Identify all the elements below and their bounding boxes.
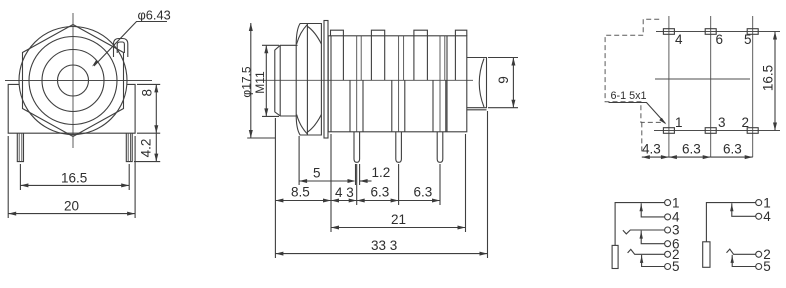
hex nut outline front bbox=[23, 25, 124, 137]
svg-text:6.3: 6.3 bbox=[723, 142, 742, 157]
side view pin 1 bbox=[354, 132, 360, 163]
front view right pin bbox=[126, 133, 132, 161]
svg-text:4: 4 bbox=[763, 209, 771, 224]
dim 16.5 (pin spacing) bbox=[20, 164, 129, 190]
wire terminal1 to sleeve (right) bbox=[706, 203, 755, 242]
pad 4 bbox=[663, 29, 674, 35]
dim 20 (body width) bbox=[8, 136, 135, 218]
terminal 1 circle right bbox=[756, 200, 762, 206]
body mould lines upper bbox=[343, 36, 455, 81]
terminal 6 circle bbox=[665, 241, 671, 247]
terminal 5 circle bbox=[665, 264, 671, 270]
label 6-1.5x1 with leader bbox=[609, 90, 667, 124]
dim 8.5 bbox=[275, 118, 331, 258]
svg-text:6-1 5x1: 6-1 5x1 bbox=[611, 90, 647, 102]
dim 21 bbox=[331, 134, 466, 232]
dim 9 (cap) bbox=[488, 58, 518, 108]
svg-text:20: 20 bbox=[64, 199, 79, 214]
sleeve rectangle S1 bbox=[612, 245, 618, 268]
svg-text:21: 21 bbox=[391, 212, 406, 227]
svg-text:6.3: 6.3 bbox=[371, 185, 390, 200]
tip spring contact 3 bbox=[623, 230, 665, 234]
terminal 4 circle bbox=[665, 214, 671, 220]
contact 4 break arrow bbox=[641, 203, 664, 217]
svg-text:5: 5 bbox=[313, 166, 321, 181]
dim 5 (nut face to pin1) bbox=[299, 136, 355, 185]
svg-text:4 3: 4 3 bbox=[335, 185, 354, 200]
pad 6 bbox=[705, 29, 716, 35]
body tabs on top bbox=[331, 30, 467, 36]
terminal 5 circle right bbox=[756, 264, 762, 270]
terminal 4 circle right bbox=[756, 213, 762, 219]
svg-text:8.5: 8.5 bbox=[291, 185, 310, 200]
dim 6.3 (pin2-pin3) bbox=[399, 164, 440, 205]
svg-text:φ17.5: φ17.5 bbox=[240, 66, 254, 97]
svg-text:6.3: 6.3 bbox=[682, 142, 701, 157]
side view pin 3 bbox=[437, 132, 443, 163]
contact 6 break arrow bbox=[641, 231, 664, 244]
svg-text:2: 2 bbox=[742, 115, 750, 130]
svg-text:1: 1 bbox=[672, 195, 680, 210]
dim 1.2 (pin width) bbox=[356, 164, 391, 185]
side view axis centerline bbox=[263, 79, 473, 81]
dim 6.3 (pin1-pin2) bbox=[357, 164, 399, 205]
footprint dashed body outline bbox=[605, 19, 664, 152]
dim 16.5 footprint bbox=[761, 32, 778, 131]
svg-text:4.3: 4.3 bbox=[642, 142, 661, 157]
dim 8 (body height) bbox=[137, 84, 160, 133]
pad 1 bbox=[663, 128, 674, 134]
contact 4 break arrow right bbox=[732, 203, 756, 216]
hex nut side view bbox=[296, 24, 321, 136]
threaded bushing M11 bbox=[275, 45, 298, 116]
svg-text:4.2: 4.2 bbox=[139, 139, 154, 158]
washer bbox=[324, 21, 328, 139]
svg-text:9: 9 bbox=[496, 76, 511, 84]
rear cap cylinder bbox=[467, 58, 487, 110]
svg-text:5: 5 bbox=[744, 32, 752, 47]
pin centerlines through body bbox=[357, 36, 440, 132]
svg-text:3: 3 bbox=[718, 115, 726, 130]
front view body housing bbox=[8, 84, 135, 133]
dim phi 17.5 bbox=[240, 23, 276, 138]
jack hole circle bbox=[58, 65, 89, 96]
terminal 2 circle bbox=[665, 251, 671, 257]
wire terminal1 to sleeve bbox=[615, 203, 664, 246]
bushing circle bbox=[29, 37, 117, 125]
footprint column lines bbox=[669, 16, 753, 157]
svg-text:6: 6 bbox=[716, 32, 724, 47]
footprint row lines bbox=[654, 32, 780, 131]
svg-text:5: 5 bbox=[763, 259, 771, 274]
pad 2 bbox=[747, 128, 758, 134]
svg-text:5: 5 bbox=[672, 259, 680, 274]
svg-text:1.2: 1.2 bbox=[372, 165, 391, 180]
ring spring contact 2 bbox=[628, 249, 665, 254]
svg-text:33 3: 33 3 bbox=[371, 238, 397, 253]
main body side view bbox=[328, 36, 467, 132]
contact 5 break arrow bbox=[642, 255, 665, 267]
svg-text:8: 8 bbox=[139, 89, 154, 97]
svg-text:1: 1 bbox=[675, 115, 683, 130]
dim 4.3 (labelled 4 3) bbox=[331, 185, 357, 203]
tip spring contact 2 right bbox=[727, 249, 756, 254]
body mould lines lower bbox=[350, 80, 446, 132]
front view centerlines bbox=[5, 13, 152, 148]
side view pin 2 bbox=[396, 132, 402, 163]
dim 33.3 (labelled 33 3) bbox=[275, 111, 487, 258]
dim M11 bbox=[253, 45, 279, 116]
dim 4.2 (pin length) bbox=[134, 133, 160, 161]
terminal 3 circle bbox=[665, 227, 671, 233]
svg-text:16.5: 16.5 bbox=[761, 65, 776, 91]
pad 5 bbox=[747, 29, 758, 35]
svg-text:M11: M11 bbox=[253, 71, 267, 94]
svg-text:φ6.43: φ6.43 bbox=[138, 8, 171, 23]
nut chamfer circle bbox=[19, 27, 127, 135]
terminal 1 circle bbox=[665, 200, 671, 206]
dim 4.3 footprint bbox=[642, 142, 669, 160]
thread circle bbox=[42, 50, 104, 112]
terminal 2 circle right bbox=[756, 251, 762, 257]
svg-text:4: 4 bbox=[675, 32, 683, 47]
svg-text:16.5: 16.5 bbox=[61, 171, 87, 186]
dim 6.3 footprint (3-2) bbox=[711, 142, 753, 160]
dim 6.3 footprint (1-3) bbox=[669, 142, 711, 160]
svg-text:6.3: 6.3 bbox=[414, 185, 433, 200]
sleeve rectangle S2 bbox=[703, 242, 710, 267]
locating tab bbox=[114, 39, 128, 58]
leader dia 6.43 bbox=[92, 8, 171, 67]
contact 5 break arrow right bbox=[732, 255, 756, 267]
front view left pin bbox=[17, 133, 23, 161]
pad 3 bbox=[705, 128, 716, 134]
